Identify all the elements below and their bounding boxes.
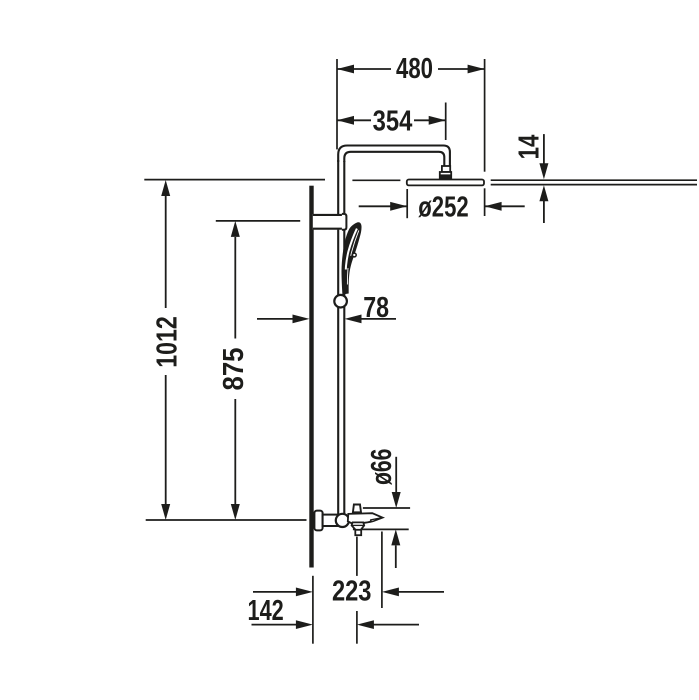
slider holder knob: [334, 295, 347, 308]
extension line 142 right lower: [356, 611, 358, 644]
svg-text:480: 480: [396, 53, 433, 85]
svg-text:354: 354: [373, 105, 413, 137]
reference line slider 875: [216, 220, 300, 222]
mixer lower knob mid line: [352, 524, 364, 526]
arm connector block: [442, 166, 450, 172]
svg-text:1012: 1012: [152, 316, 184, 368]
shower head plate: [407, 180, 484, 186]
dimension 78: [257, 315, 396, 324]
extension line d252 left: [406, 189, 408, 218]
mixer lower knob: [352, 522, 365, 530]
mixer valve body: [336, 514, 349, 527]
mixer top knob: [353, 505, 361, 513]
spout tip: [371, 518, 383, 522]
reference line head-top right: [491, 179, 697, 181]
extension line 354 right: [445, 103, 447, 141]
dimension 14: [539, 134, 548, 223]
extension line 223 right: [381, 532, 383, 609]
mixer lower knob base: [355, 530, 361, 535]
wall: [309, 186, 313, 568]
reference line spout bottom: [353, 528, 409, 530]
extension line wall face bottom: [312, 576, 314, 644]
wall bracket: [313, 214, 344, 230]
svg-text:875: 875: [218, 348, 250, 391]
reference line head-top left: [144, 179, 325, 181]
dimension d252: [359, 202, 525, 211]
dimension 354: [337, 116, 446, 125]
extension line 142 right upper: [356, 537, 358, 576]
dimension 875: [231, 221, 240, 520]
svg-text:142: 142: [248, 595, 284, 627]
head flange: [440, 172, 451, 179]
reference line mixer axis bottom: [146, 519, 307, 521]
dimension 223: [253, 588, 444, 597]
hand shower button: [352, 253, 356, 257]
svg-text:ø66: ø66: [366, 449, 398, 486]
shower pipe riser: [338, 160, 344, 514]
hand shower: [342, 222, 362, 294]
dimension 1012: [161, 180, 170, 520]
mixer spout: [348, 513, 383, 523]
dimension 142: [252, 620, 420, 629]
slider collar tab: [342, 214, 347, 230]
extension line d252 right: [484, 188, 486, 216]
dimension d66: [391, 457, 400, 568]
reference line head-top middle: [352, 179, 400, 181]
reference line head-bottom right: [491, 184, 697, 186]
mixer connector pipe: [323, 515, 338, 526]
shower arm: [338, 146, 450, 167]
dimension 480: [337, 65, 485, 74]
extension line 480 right: [484, 59, 486, 172]
mixer escutcheon: [314, 511, 322, 531]
svg-text:ø252: ø252: [418, 192, 468, 224]
svg-text:223: 223: [332, 575, 372, 607]
svg-text:14: 14: [514, 135, 546, 160]
reference line spout top: [363, 507, 410, 509]
extension line 480-354 left: [336, 59, 338, 149]
svg-text:78: 78: [363, 292, 389, 324]
